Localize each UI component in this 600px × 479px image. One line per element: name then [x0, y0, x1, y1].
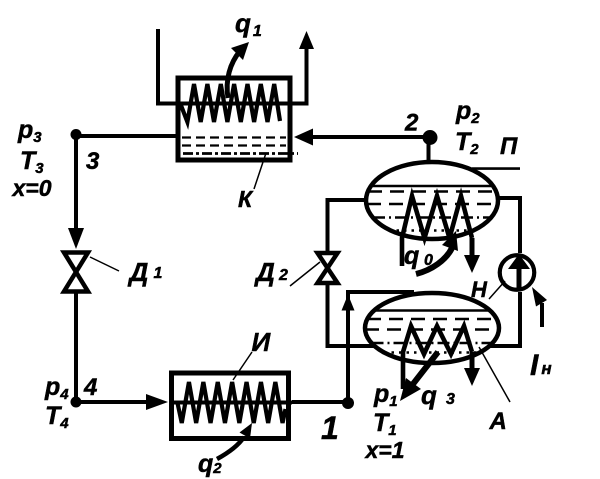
wire valve Д2 to absorber А	[328, 283, 375, 346]
svg-text:1: 1	[321, 410, 339, 446]
absorber liquid surface line	[374, 309, 490, 312]
wire pump Н to absorber А	[490, 292, 520, 346]
svg-text:4: 4	[83, 374, 97, 401]
node 1	[342, 397, 354, 409]
heat flow arrow q0	[416, 248, 452, 274]
condenser К cooling water inlet wire	[158, 29, 183, 104]
svg-text:q: q	[421, 380, 437, 410]
evaporator И coil lead wire	[169, 401, 292, 405]
arrowhead flow up riser	[342, 295, 355, 311]
arrowhead flow into condenser К	[294, 129, 313, 146]
wire node 2 to condenser К	[308, 135, 424, 139]
pump Н circle	[500, 255, 535, 290]
condenser К cooling water outlet arrow	[305, 46, 309, 104]
node 4	[71, 397, 82, 408]
evaporator И coil	[178, 382, 286, 423]
svg-text:3: 3	[86, 148, 100, 175]
absorber dash-dot line	[372, 342, 493, 345]
heat flow arrow q1	[227, 51, 240, 98]
condenser liquid level dash-dot line	[183, 152, 298, 155]
generator dashed line 1	[368, 190, 496, 193]
pump work input arrow Iн	[540, 303, 544, 327]
heat flow arrow q3	[413, 352, 438, 384]
condenser К cooling coil	[181, 84, 281, 122]
generator П coil outlet arrow	[470, 238, 475, 257]
pointer line to pump Н	[489, 281, 505, 299]
absorber dashed line 1	[367, 318, 497, 321]
condenser liquid level dashed line 1	[182, 136, 286, 138]
condenser К body	[178, 78, 290, 160]
wire node 2 to generator П	[427, 142, 431, 162]
wire generator П to valve Д2	[328, 200, 369, 251]
absorber А vessel	[365, 293, 499, 363]
pump Н flow arrow	[517, 268, 522, 290]
svg-text:2: 2	[278, 267, 288, 284]
wire node 3 to condenser К	[76, 134, 178, 138]
svg-text:2: 2	[404, 110, 419, 137]
wire node 3 down to valve Д1 with arrowhead	[74, 135, 78, 233]
heat flow arrow q2	[217, 437, 244, 459]
svg-text:3: 3	[446, 391, 455, 408]
generator coil	[402, 196, 472, 266]
pointer line to valve Д2	[290, 262, 320, 286]
svg-text:1: 1	[154, 265, 163, 282]
throttle valve Д1	[64, 253, 88, 273]
absorber dashed line 2	[365, 328, 499, 331]
svg-text:x=0: x=0	[11, 175, 52, 201]
absorber dotted line	[384, 351, 480, 354]
svg-text:А: А	[489, 408, 507, 435]
wire evaporator И to node 1	[292, 400, 348, 404]
generator П vessel	[366, 162, 498, 239]
pointer line to generator П	[472, 167, 520, 170]
svg-text:x=1: x=1	[364, 437, 405, 463]
condenser К coil lead wire	[183, 102, 309, 106]
wire valve Д1 to node 4	[74, 291, 78, 402]
wire node 1 riser to absorber А	[348, 292, 414, 403]
wire generator П to pump Н	[497, 198, 520, 253]
svg-text:0: 0	[424, 252, 433, 269]
svg-text:Д: Д	[128, 257, 149, 287]
svg-text:И: И	[252, 327, 272, 357]
absorber coil	[403, 326, 472, 389]
pointer line to absorber А	[479, 347, 510, 402]
svg-text:К: К	[238, 186, 254, 212]
svg-text:q: q	[404, 242, 419, 270]
generator dotted line	[389, 229, 475, 232]
svg-text:П: П	[500, 133, 518, 160]
pointer line to valve Д1	[90, 257, 119, 271]
generator dash-dot line	[373, 216, 491, 219]
svg-text:Д: Д	[254, 257, 275, 287]
generator dashed line 2	[367, 203, 497, 206]
wire node 4 to evaporator И with arrowhead	[76, 400, 148, 404]
evaporator И body	[172, 373, 289, 439]
throttle valve Д2	[318, 253, 338, 268]
pointer line to evaporator И	[233, 352, 252, 380]
node 2	[423, 130, 438, 145]
generator liquid surface line	[371, 185, 493, 188]
node 3	[71, 129, 82, 140]
absorber А coil outlet arrow	[470, 352, 475, 370]
condenser liquid level dashed line 2	[182, 144, 286, 146]
pointer line to condenser К	[254, 153, 266, 189]
